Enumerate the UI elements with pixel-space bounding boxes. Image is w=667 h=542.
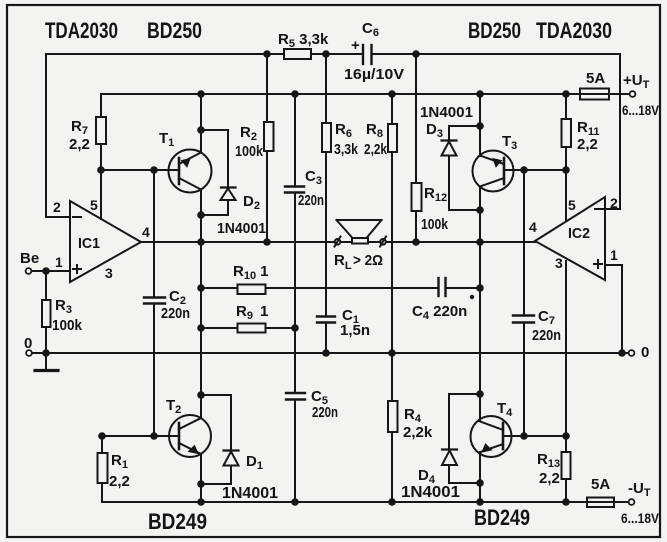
resistor R13 [562,452,571,479]
capacitor C1 [317,315,335,317]
svg-text:2,2: 2,2 [69,136,90,153]
svg-text:2,2: 2,2 [109,473,130,490]
resistor R12 [412,183,422,211]
svg-text:1: 1 [610,247,618,263]
svg-text:100k: 100k [421,216,449,233]
op-amp IC1 [70,201,141,282]
wire: R2 column x=267 [266,54,268,242]
svg-text:5: 5 [568,197,576,213]
svg-text:0: 0 [24,335,32,352]
wire: IC2 pin3 / R13 column [565,261,567,502]
junction dot R9 right end [291,324,299,332]
junction dots on left output column [197,126,205,134]
svg-text:2,2: 2,2 [539,470,560,487]
svg-text:5A: 5A [591,476,610,493]
svg-text:1N4001: 1N4001 [401,484,460,501]
svg-text:3,3k: 3,3k [334,141,359,158]
ground [45,353,47,370]
stray print dot near C4 [470,295,474,299]
svg-text:2,2k: 2,2k [403,424,433,441]
wire: 0 ground rail y=353 [32,352,622,354]
terminal Be [26,268,32,274]
svg-text:1,5n: 1,5n [340,322,370,339]
svg-text:4: 4 [142,224,150,240]
wire: C2 column x=154 [153,170,155,436]
svg-text:> 2Ω: > 2Ω [353,252,383,269]
wire: R10/C4 row y=288 [201,287,480,289]
wire: C7 column x=524 [523,170,525,436]
svg-text:1N4001: 1N4001 [420,104,473,121]
wire: T4 base wire [503,435,566,437]
wire: -UT bottom rail y=502 [102,436,628,502]
svg-text:IC2: IC2 [568,225,590,242]
svg-text:1N4001: 1N4001 [217,220,266,237]
wire: D3 parallel loop [449,126,480,210]
wire: speaker output rail y=242 [141,241,535,243]
resistor R8 [388,124,397,152]
wire: D4 parallel loop [449,394,480,483]
svg-text:220n: 220n [298,192,324,209]
fuse 5A bottom [587,498,614,508]
junction dots on -UT rail [291,498,299,506]
terminal +UT [630,91,636,97]
terminal -UT [629,499,635,505]
svg-text:2: 2 [610,195,618,211]
svg-text:1: 1 [55,254,63,270]
svg-text:R5 3,3k: R5 3,3k [278,31,329,50]
wire: left output column x=201 [200,94,202,502]
svg-text:5: 5 [90,197,98,213]
svg-text:Be: Be [20,250,39,267]
speaker RL [337,220,382,238]
resistor R4 [388,401,398,432]
wire: R12 column x=416 [415,54,417,242]
capacitor C7 [513,314,534,316]
svg-text:3: 3 [105,265,113,281]
terminal 0 left [26,350,32,356]
svg-text:IC1: IC1 [78,235,100,252]
junction dots on base wires [97,166,105,174]
svg-text:100k: 100k [235,143,264,160]
svg-text:BD250: BD250 [468,18,521,43]
svg-text:2,2: 2,2 [577,136,598,153]
svg-text:+: + [351,37,360,54]
diode D3 [442,139,457,141]
wire: +UT supply rail y=94 [101,94,629,219]
resistor R1 [98,453,108,483]
wire: Be input wire [32,270,70,272]
wire: R11 / IC2 pin5 column [565,94,567,221]
fuse 5A top [580,89,609,100]
capacitor C3 [285,185,304,187]
svg-text:BD249: BD249 [148,509,207,534]
svg-text:BD249: BD249 [474,505,530,530]
svg-text:5A: 5A [586,70,605,87]
wire: D1 parallel loop [201,395,231,484]
transistor T4 [471,416,512,457]
wire: IC2 pin1 to 0 terminal [605,265,628,353]
transistor T3 [473,151,514,192]
wire: R8/R4 column x=392 [391,94,393,502]
svg-text:2,2k: 2,2k [364,141,388,158]
junction dots on top rail [263,50,271,58]
junction dots on speaker rail [263,238,271,246]
svg-text:BD250: BD250 [147,18,202,43]
wire: R9 row y=328 [201,327,295,329]
terminal 0 right [629,350,635,356]
wire: right output column x=480 [479,94,481,502]
transistor T2 [169,415,211,457]
diode D4 [442,448,457,450]
svg-text:TDA2030: TDA2030 [45,18,118,43]
svg-text:1N4001: 1N4001 [222,485,278,502]
svg-text:4: 4 [529,219,537,235]
diode D1 [224,449,239,451]
speaker left terminal [335,239,341,245]
wire: C3/C5 column x=295 [294,94,296,502]
svg-text:3: 3 [555,255,563,271]
capacitor C2 [144,296,165,298]
svg-text:100k: 100k [52,317,83,334]
capacitor C6 [362,45,364,64]
svg-text:TDA2030: TDA2030 [536,18,612,43]
resistor R3 [42,300,51,327]
resistor R5 [284,49,311,59]
svg-text:0: 0 [641,344,649,361]
resistor R9 [238,324,266,333]
speaker right terminal [380,239,386,245]
wire: T3 base wire [504,169,566,171]
op-amp IC2 [535,197,605,280]
svg-text:16µ/10V: 16µ/10V [344,66,404,83]
wire: T2 base wire [102,435,179,437]
wire: T1 base wire [101,169,179,171]
junction dots on right output column [476,122,484,130]
resistor R7 [96,117,106,144]
wire: R6/C1 column x=326 [325,54,327,353]
svg-text:220n: 220n [161,305,190,322]
svg-text:C4 220n: C4 220n [412,303,467,322]
svg-text:220n: 220n [312,404,338,421]
svg-text:6...18V: 6...18V [622,102,660,118]
junction dots on +UT rail [197,90,205,98]
capacitor C5 [286,392,305,394]
capacitor C4 [437,278,439,296]
diode D2 [221,186,236,188]
svg-text:2: 2 [53,199,61,215]
transistor T1 [169,150,212,193]
svg-text:6...18V: 6...18V [621,510,660,526]
resistor R10 [238,285,266,295]
svg-text:220n: 220n [532,327,561,344]
wire: D2 parallel loop [201,130,228,215]
wire: R3 column x=46 [45,271,47,353]
wire: top feedback rail (IC1 pin2 to IC2 pin2) [46,54,620,217]
resistor R2 [264,122,274,151]
resistor R6 [322,123,331,152]
junction dots on 0 rail [42,267,50,275]
resistor R11 [562,119,572,147]
